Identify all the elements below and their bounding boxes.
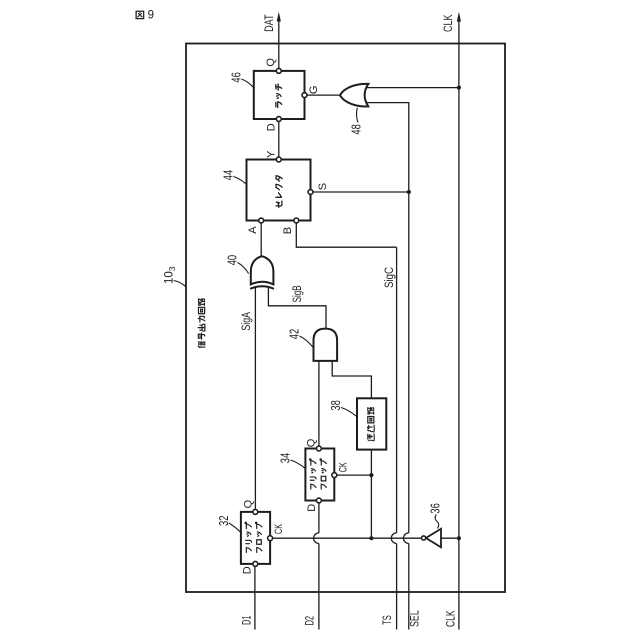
svg-text:CK: CK — [338, 462, 350, 472]
svg-text:D2: D2 — [303, 616, 317, 626]
wire TS/SigC vertical (hop at CK line) — [396, 247, 398, 533]
wire D2 (FF34 D to bottom, hop at CK bus) — [318, 501, 320, 533]
pin circle selector S — [308, 190, 313, 195]
pin circle FF34 CK — [332, 473, 337, 478]
pin circle FF34 D — [316, 498, 321, 503]
label フリップ / フロップ — [245, 522, 262, 552]
pin circle selector B — [294, 218, 299, 223]
svg-text:DAT: DAT — [262, 14, 276, 32]
wire selector S line — [311, 191, 409, 193]
svg-text:SigC: SigC — [382, 267, 396, 288]
wire SigA (XOR left input down to FF32 Q) — [254, 287, 256, 512]
svg-text:SEL: SEL — [408, 610, 422, 627]
flip-flop U32 box — [241, 512, 270, 564]
svg-text:SigA: SigA — [239, 311, 253, 330]
pin circle selector Y — [276, 157, 281, 162]
svg-text:32: 32 — [217, 516, 231, 526]
wire FF34 CK stub — [334, 474, 371, 476]
label 信号出力回路 — [198, 299, 205, 348]
svg-text:S: S — [317, 183, 329, 190]
svg-text:40: 40 — [225, 255, 239, 265]
wire inverter out to CLK — [441, 537, 459, 539]
svg-text:42: 42 — [288, 329, 302, 339]
svg-text:D: D — [306, 504, 318, 512]
leader 48 — [357, 108, 358, 123]
xor-gate 40 — [250, 256, 274, 289]
svg-text:CLK: CLK — [441, 14, 455, 32]
wire OR top input to CLK — [367, 87, 459, 89]
wire CK bus (FF32 CK to inverter) — [270, 537, 421, 539]
svg-text:CK: CK — [273, 524, 285, 534]
wire SigB net (XOR right input to AND output) — [268, 287, 326, 329]
wire delay bottom to CK bus — [370, 450, 372, 539]
leader 46 — [242, 79, 254, 88]
and-gate 42 — [314, 329, 338, 361]
wire AND right input from delay top — [332, 361, 371, 398]
svg-text:Q: Q — [306, 438, 318, 447]
wire SEL vertical (S junction to bottom, hop at CK line) — [408, 192, 410, 533]
pin circle latch G — [302, 93, 307, 98]
outer block 10_3 signal output circuit box — [186, 44, 505, 593]
leader 42 — [300, 336, 314, 348]
flip-flop U34 box — [305, 449, 334, 501]
pin circle selector A — [259, 218, 264, 223]
arrowhead CLK — [457, 12, 461, 22]
svg-text:B: B — [282, 227, 294, 234]
wire CLK vertical — [458, 21, 460, 630]
pin circle FF34 Q — [316, 446, 321, 451]
leader 40 — [238, 263, 249, 274]
svg-text:9: 9 — [148, 10, 154, 22]
svg-text:48: 48 — [350, 124, 364, 134]
wire XOR out to selector A — [260, 221, 262, 257]
pin circle latch D — [276, 117, 281, 122]
svg-text:34: 34 — [279, 453, 293, 463]
junction delay line / CK bus — [369, 536, 373, 540]
arrowhead DAT — [277, 12, 281, 22]
svg-text:CLK: CLK — [444, 610, 458, 627]
svg-text:36: 36 — [428, 503, 442, 513]
pin circle FF32 Q — [253, 509, 258, 514]
junction delay line / FF34 CK — [369, 473, 373, 477]
leader 36 — [435, 515, 439, 529]
selector U44 box — [247, 160, 311, 221]
svg-text:G: G — [308, 86, 320, 95]
wire latch D to selector Y — [278, 119, 280, 160]
latch U46 box — [254, 71, 305, 119]
wire selector B down-right to TS riser — [296, 221, 396, 248]
svg-text:44: 44 — [222, 170, 236, 180]
leader 32 — [229, 523, 241, 532]
wire OR bottom input / SEL riser top — [367, 103, 409, 192]
svg-text:46: 46 — [230, 72, 244, 82]
svg-text:D: D — [266, 123, 278, 131]
delay circuit 38 box — [357, 398, 386, 449]
leader for 10_3 — [174, 281, 186, 287]
svg-text:D: D — [242, 566, 254, 574]
wire G to OR tip — [305, 94, 340, 96]
junction CLK / OR top input — [457, 86, 461, 90]
junction CLK / CK bus — [457, 536, 461, 540]
label ラッチ — [276, 84, 282, 107]
figure caption 図9 — [136, 10, 154, 22]
wire DAT output — [278, 21, 280, 71]
svg-text:A: A — [247, 226, 259, 234]
or-gate 48 — [340, 84, 368, 107]
wire AND left input from FF34 Q — [318, 361, 320, 449]
label セレクタ — [276, 176, 282, 208]
svg-text:SigB: SigB — [290, 285, 304, 302]
pin circle FF32 CK — [268, 536, 273, 541]
svg-text:Q: Q — [265, 58, 277, 67]
svg-text:Y: Y — [266, 150, 278, 158]
pin circle latch Q — [276, 68, 281, 73]
svg-text:Q: Q — [243, 499, 255, 508]
svg-text:TS: TS — [380, 615, 394, 625]
wire D1 (FF32 D to bottom) — [254, 564, 256, 630]
junction SEL / S line — [407, 190, 411, 194]
leader 44 — [234, 177, 247, 185]
leader 38 — [341, 408, 357, 417]
leader 34 — [291, 460, 306, 468]
label 遅延回路 — [367, 408, 374, 441]
svg-text:D1: D1 — [239, 615, 253, 625]
label フリップ / フロップ — [310, 459, 327, 489]
svg-text:38: 38 — [329, 400, 343, 410]
svg-text:103: 103 — [164, 266, 177, 284]
pin circle FF32 D — [253, 561, 258, 566]
inverter 36 — [422, 529, 442, 548]
